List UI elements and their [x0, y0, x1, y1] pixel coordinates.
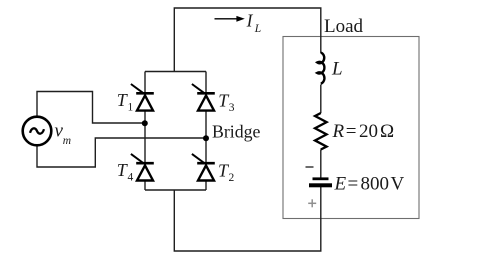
- svg-text:2: 2: [229, 172, 235, 184]
- svg-text:L: L: [331, 59, 343, 80]
- thyristor T2: [192, 154, 215, 181]
- thyristor T3: [192, 84, 215, 111]
- label T1: [117, 90, 134, 113]
- svg-text:20: 20: [359, 121, 378, 142]
- label IL: [246, 10, 262, 35]
- label T4: [117, 160, 134, 183]
- svg-text:Bridge: Bridge: [212, 122, 261, 142]
- wire source bottom loop: [37, 138, 206, 167]
- svg-text:V: V: [391, 174, 405, 195]
- wire bridge bottom edge: [145, 189, 206, 191]
- label E value: [334, 174, 405, 195]
- svg-text:E: E: [334, 174, 347, 195]
- wire source top loop: [37, 92, 145, 124]
- wire bottom rail: [174, 187, 320, 252]
- battery minus sign: [306, 166, 314, 168]
- svg-text:m: m: [63, 135, 71, 147]
- svg-text:=: =: [346, 121, 357, 142]
- thyristor T1: [131, 84, 154, 111]
- load box: [283, 37, 419, 219]
- wire bridge top edge: [145, 71, 206, 73]
- wire top rail: [174, 8, 320, 72]
- svg-text:800: 800: [361, 174, 390, 195]
- wire right bridge branch: [205, 72, 207, 191]
- svg-text:I: I: [246, 10, 254, 30]
- ac source VS circle: [23, 117, 52, 146]
- node Bridge junction: [203, 135, 209, 141]
- current arrow IL: [215, 16, 245, 22]
- svg-text:=: =: [348, 174, 359, 195]
- wire coil-resistor: [320, 85, 322, 114]
- label R value: [332, 121, 395, 142]
- svg-text:1: 1: [128, 102, 134, 114]
- wire left bridge branch: [144, 72, 146, 191]
- battery E: [309, 177, 332, 187]
- label T2: [218, 161, 235, 185]
- resistor R: [315, 113, 327, 150]
- ac source sine symbol: [30, 128, 44, 133]
- svg-text:Load: Load: [324, 16, 364, 37]
- svg-text:3: 3: [229, 102, 235, 114]
- wire resistor-battery: [320, 150, 322, 178]
- inductor L: [317, 53, 324, 84]
- svg-text:R: R: [332, 121, 345, 142]
- node AC left junction: [142, 120, 148, 126]
- battery plus sign: [308, 199, 316, 207]
- svg-text:4: 4: [128, 172, 134, 184]
- thyristor T4: [131, 154, 154, 181]
- svg-text:L: L: [254, 23, 261, 35]
- label T3: [218, 91, 235, 115]
- svg-text:Ω: Ω: [380, 121, 394, 142]
